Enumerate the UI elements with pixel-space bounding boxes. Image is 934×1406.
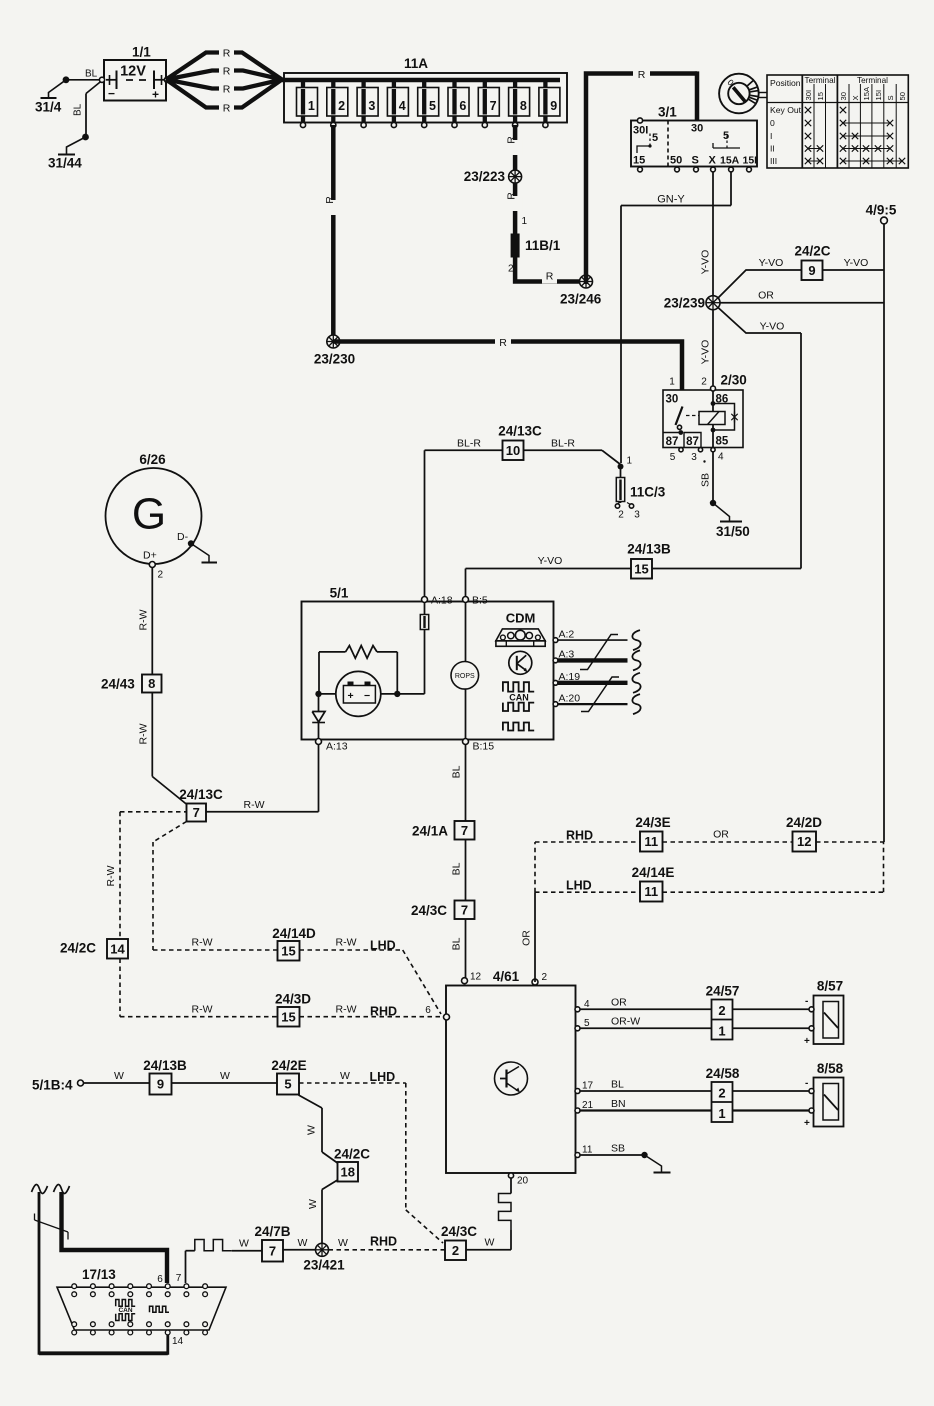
svg-text:15A: 15A <box>862 86 871 100</box>
svg-text:B:5: B:5 <box>472 595 488 607</box>
svg-text:3: 3 <box>368 99 375 113</box>
svg-text:I: I <box>770 131 772 141</box>
svg-text:5: 5 <box>670 452 676 463</box>
svg-text:2/30: 2/30 <box>721 373 747 388</box>
svg-text:24/7B: 24/7B <box>254 1224 290 1239</box>
junction 23/239 <box>706 296 720 310</box>
terminal B:15 <box>463 739 469 745</box>
svg-text:CDM: CDM <box>506 611 536 626</box>
svg-text:23/239: 23/239 <box>664 296 705 311</box>
transistor symbol <box>495 1062 528 1095</box>
junction 23/246 <box>580 275 593 288</box>
svg-text:0: 0 <box>770 118 775 128</box>
outputs A:2 A:3 A:19 A:20 <box>553 638 558 643</box>
relay 87 terminals <box>663 432 681 434</box>
svg-text:R: R <box>223 66 231 78</box>
fuse in 5/1 <box>424 603 426 615</box>
svg-text:2: 2 <box>718 1003 725 1018</box>
svg-text:−: − <box>364 690 370 702</box>
svg-text:4: 4 <box>584 999 590 1010</box>
svg-text:BL-R: BL-R <box>457 438 481 450</box>
svg-text:2: 2 <box>718 1086 725 1101</box>
svg-text:W: W <box>340 1070 350 1082</box>
svg-text:50: 50 <box>898 92 907 100</box>
svg-text:15: 15 <box>634 561 648 576</box>
svg-text:4/9:5: 4/9:5 <box>866 203 897 218</box>
svg-text:Key Out: Key Out <box>770 105 802 115</box>
svg-text:15: 15 <box>816 92 825 100</box>
svg-text:20: 20 <box>517 1176 529 1187</box>
svg-text:11: 11 <box>582 1145 593 1156</box>
wire BL from B:15 <box>465 745 467 822</box>
pin 5 wire OR-W <box>575 1026 580 1031</box>
svg-text:7: 7 <box>461 902 468 917</box>
svg-text:31/50: 31/50 <box>716 524 750 539</box>
pin 21 wire BN <box>575 1108 580 1113</box>
wire BL to 31/44 <box>86 81 102 94</box>
wire bundle R x4 battery to fusebox <box>166 53 282 80</box>
svg-text:1: 1 <box>669 377 675 388</box>
svg-text:R-W: R-W <box>192 1004 213 1016</box>
svg-text:5: 5 <box>584 1018 590 1029</box>
svg-text:W: W <box>114 1070 124 1082</box>
svg-text:24/14D: 24/14D <box>272 926 316 941</box>
svg-text:10: 10 <box>506 443 520 458</box>
dashed W LHD to 24/3C <box>299 1082 406 1084</box>
svg-text:Y-VO: Y-VO <box>700 250 712 275</box>
svg-text:5: 5 <box>284 1077 291 1092</box>
svg-text:15: 15 <box>281 943 295 958</box>
svg-text:24/43: 24/43 <box>101 677 135 692</box>
svg-text:W: W <box>298 1237 308 1249</box>
svg-text:OR: OR <box>521 930 533 946</box>
svg-text:5: 5 <box>429 99 436 113</box>
svg-text:24/3D: 24/3D <box>275 992 311 1007</box>
svg-text:OR: OR <box>758 290 774 302</box>
svg-text:LHD: LHD <box>370 939 396 953</box>
svg-text:Terminal: Terminal <box>857 76 888 85</box>
svg-text:7: 7 <box>193 805 200 820</box>
svg-text:R-W: R-W <box>336 1004 357 1016</box>
fuse 11C/3 <box>618 464 624 470</box>
svg-text:-: - <box>805 996 808 1007</box>
dashed wire R-W RHD row <box>120 1016 278 1018</box>
fuse 4 <box>392 80 396 122</box>
svg-text:A:20: A:20 <box>559 693 581 705</box>
wire OR from pin 2 up <box>534 892 536 982</box>
svg-text:3/1: 3/1 <box>658 105 677 120</box>
fuse 1 <box>301 80 305 122</box>
terminal pin 6 <box>444 1014 450 1020</box>
svg-text:24/57: 24/57 <box>706 984 740 999</box>
svg-text:17/13: 17/13 <box>82 1267 116 1282</box>
diode in 5/1 <box>318 694 320 712</box>
pin 4 wire OR <box>575 1007 580 1012</box>
svg-text:R: R <box>223 48 231 60</box>
wire SB to ground 31/50 <box>712 452 714 503</box>
svg-text:8/57: 8/57 <box>817 979 843 994</box>
svg-text:OR: OR <box>713 829 729 841</box>
pin 17 wire BL <box>575 1089 580 1094</box>
svg-text:11B/1: 11B/1 <box>525 238 561 253</box>
clip mark <box>35 1220 69 1232</box>
svg-text:R-W: R-W <box>244 799 265 811</box>
svg-text:4: 4 <box>399 99 406 113</box>
svg-text:D-: D- <box>177 531 189 543</box>
dashed LHD row with 24/14E <box>535 891 640 893</box>
svg-text:5: 5 <box>723 130 729 142</box>
svg-text:R-W: R-W <box>336 937 357 949</box>
svg-text:24/3C: 24/3C <box>441 1224 477 1239</box>
svg-text:3: 3 <box>634 510 640 521</box>
svg-text:S: S <box>692 155 699 167</box>
svg-text:D+: D+ <box>143 550 157 562</box>
fuse 3 <box>361 80 365 122</box>
svg-text:24/13C: 24/13C <box>498 424 542 439</box>
svg-text:BL: BL <box>451 937 463 950</box>
relay coil <box>711 386 716 391</box>
svg-text:6/26: 6/26 <box>139 452 166 467</box>
svg-text:R-W: R-W <box>192 937 213 949</box>
wire R to relay 2/30 <box>333 342 682 411</box>
fuse 5 <box>422 80 426 122</box>
svg-text:+: + <box>348 690 354 702</box>
svg-text:24/13B: 24/13B <box>627 542 671 557</box>
terminal A:13 <box>316 739 322 745</box>
svg-text:12: 12 <box>797 834 811 849</box>
thick wire to pin 6 <box>32 1184 48 1193</box>
svg-text:24/2D: 24/2D <box>786 815 822 830</box>
svg-text:12: 12 <box>470 972 482 983</box>
svg-text:24/13B: 24/13B <box>143 1058 187 1073</box>
svg-text:−: − <box>108 87 115 101</box>
svg-text:A:13: A:13 <box>326 741 348 753</box>
svg-text:LHD: LHD <box>370 1070 396 1084</box>
svg-text:87: 87 <box>686 436 699 448</box>
key symbol <box>719 74 759 114</box>
svg-text:+: + <box>804 1118 810 1129</box>
svg-text:5/1: 5/1 <box>330 586 349 601</box>
instrument cluster icon <box>496 629 545 641</box>
svg-text:24/2E: 24/2E <box>271 1058 306 1073</box>
svg-text:7: 7 <box>461 823 468 838</box>
wire Y-VO to relay <box>712 310 714 387</box>
svg-text:Y-VO: Y-VO <box>759 257 784 269</box>
svg-text:R: R <box>506 136 518 144</box>
svg-text:W: W <box>307 1199 319 1209</box>
svg-text:Y-VO: Y-VO <box>760 321 785 333</box>
svg-text:1: 1 <box>718 1024 725 1039</box>
svg-text:2: 2 <box>701 377 707 388</box>
svg-text:21: 21 <box>582 1100 594 1111</box>
svg-text:24/3C: 24/3C <box>411 903 447 918</box>
svg-text:24/3E: 24/3E <box>635 815 670 830</box>
svg-text:8: 8 <box>520 99 527 113</box>
svg-text:8/58: 8/58 <box>817 1061 844 1076</box>
svg-text:24/58: 24/58 <box>706 1066 740 1081</box>
svg-text:R: R <box>324 196 336 204</box>
svg-text:30: 30 <box>666 394 679 406</box>
svg-text:15I: 15I <box>743 155 758 167</box>
svg-text:R-W: R-W <box>105 865 117 886</box>
dashed W RHD to 24/3C <box>329 1249 446 1251</box>
resistor in 5/1 <box>319 651 346 653</box>
svg-text:BN: BN <box>611 1098 626 1110</box>
svg-text:30I: 30I <box>633 125 648 137</box>
connector pins bottom row <box>72 1322 77 1327</box>
svg-text:15: 15 <box>633 155 645 167</box>
svg-text:6: 6 <box>459 99 466 113</box>
wire Y-VO to 24/2C <box>718 270 802 298</box>
terminal pin 12 <box>462 978 468 984</box>
svg-text:85: 85 <box>716 436 729 448</box>
junction 23/230 <box>327 335 340 348</box>
fuse 6 <box>452 80 456 122</box>
fuse 7 <box>483 80 487 122</box>
dashed wire R-W to 24/2C <box>120 811 187 813</box>
junction 23/421 <box>316 1243 329 1256</box>
svg-text:2: 2 <box>452 1243 459 1258</box>
svg-text:24/2C: 24/2C <box>334 1147 370 1162</box>
svg-text:2: 2 <box>338 99 345 113</box>
pin 20 square wave wire W <box>508 1173 513 1178</box>
svg-text:SB: SB <box>700 473 712 487</box>
svg-text:W: W <box>338 1237 348 1249</box>
svg-text:50: 50 <box>670 155 682 167</box>
svg-text:+: + <box>804 1036 810 1047</box>
svg-text:X: X <box>851 95 860 100</box>
svg-text:BL: BL <box>451 862 463 875</box>
wire R-W to A:13 <box>206 811 319 813</box>
svg-text:15A: 15A <box>720 155 740 167</box>
terminal 4/9:5 <box>883 224 885 270</box>
wire R to 23/246 <box>542 271 557 284</box>
svg-text:B:15: B:15 <box>473 741 495 753</box>
svg-text:15I: 15I <box>874 90 883 101</box>
svg-text:9: 9 <box>808 263 815 278</box>
svg-text:87: 87 <box>666 436 679 448</box>
svg-text:BL-R: BL-R <box>551 438 575 450</box>
svg-text:31/4: 31/4 <box>35 100 62 115</box>
svg-text:+: + <box>152 88 159 102</box>
svg-text:23/421: 23/421 <box>303 1258 345 1273</box>
svg-text:6: 6 <box>157 1274 163 1285</box>
svg-text:1: 1 <box>522 216 528 227</box>
terminal A:18 <box>422 597 428 603</box>
wire R-W from D+ <box>151 568 153 675</box>
svg-text:14: 14 <box>172 1336 184 1347</box>
svg-text:SB: SB <box>611 1143 625 1155</box>
svg-text:2: 2 <box>618 510 624 521</box>
ignition position table <box>767 75 908 168</box>
svg-text:RHD: RHD <box>370 1235 397 1249</box>
svg-text:23/230: 23/230 <box>314 352 355 367</box>
svg-text:S: S <box>886 95 895 100</box>
svg-text:R: R <box>638 69 646 81</box>
wire W to 24/7B <box>283 1249 316 1251</box>
wire Y-VO to 24/13B <box>718 308 801 334</box>
svg-text:A:18: A:18 <box>431 595 453 607</box>
wire OR right vertical <box>720 302 884 304</box>
junction 23/223 <box>509 170 522 183</box>
svg-text:9: 9 <box>550 99 557 113</box>
terminal pin 2 <box>532 979 538 985</box>
svg-text:23/246: 23/246 <box>560 292 602 307</box>
connector pins top row <box>72 1284 77 1289</box>
bundle slashes <box>580 635 618 670</box>
svg-text:1: 1 <box>627 456 633 467</box>
wire R fuse 2 down <box>331 125 336 342</box>
svg-text:30: 30 <box>691 123 703 135</box>
svg-text:ROPS: ROPS <box>455 673 475 680</box>
svg-text:R: R <box>506 192 518 200</box>
svg-text:Position: Position <box>770 78 801 88</box>
table marks <box>805 107 811 113</box>
svg-text:2: 2 <box>542 972 548 983</box>
svg-text:GN-Y: GN-Y <box>657 194 685 206</box>
svg-text:R-W: R-W <box>138 609 150 630</box>
svg-text:24/13C: 24/13C <box>179 787 223 802</box>
wire to pin 14 <box>39 1192 168 1353</box>
fuse 8 <box>513 80 517 122</box>
svg-text:R-W: R-W <box>138 723 150 744</box>
CAN square waves <box>503 682 534 691</box>
svg-text:BL: BL <box>85 69 98 80</box>
wire BL battery negative <box>66 79 102 81</box>
svg-text:RHD: RHD <box>370 1005 397 1019</box>
svg-text:CAN: CAN <box>118 1307 132 1314</box>
svg-text:12V: 12V <box>120 64 146 80</box>
svg-text:R: R <box>499 337 507 349</box>
dashed RHD row with 24/3E and 24/2D <box>535 841 640 843</box>
svg-text:-: - <box>805 1078 808 1089</box>
svg-text:30: 30 <box>839 92 848 100</box>
fuse 2 <box>331 80 335 122</box>
pin 11 wire SB to ground <box>575 1153 580 1158</box>
svg-text:Y-VO: Y-VO <box>538 555 563 567</box>
svg-text:9: 9 <box>157 1077 164 1092</box>
wire R fuse 8 down <box>513 125 518 234</box>
svg-text:A:2: A:2 <box>559 629 575 641</box>
svg-text:3: 3 <box>691 452 697 463</box>
svg-text:14: 14 <box>110 941 125 956</box>
wire R-W diagonal to 24/13C <box>152 777 187 806</box>
fuse 9 <box>543 80 547 122</box>
svg-text:8: 8 <box>148 676 155 691</box>
svg-text:2: 2 <box>158 570 164 581</box>
svg-text:1/1: 1/1 <box>132 45 151 60</box>
detent symbol left <box>637 146 650 153</box>
svg-text:W: W <box>239 1238 249 1250</box>
svg-text:30I: 30I <box>804 90 813 101</box>
ROPS circle <box>465 603 467 740</box>
svg-text:R: R <box>546 271 554 283</box>
svg-text:31/44: 31/44 <box>48 156 82 171</box>
svg-text:BL: BL <box>73 103 84 116</box>
svg-text:4: 4 <box>718 452 724 463</box>
ground 31/44 <box>67 137 86 154</box>
svg-text:OR-W: OR-W <box>611 1016 640 1028</box>
svg-text:Y-VO: Y-VO <box>700 340 712 365</box>
svg-text:W: W <box>485 1237 495 1249</box>
svg-text:18: 18 <box>341 1164 355 1179</box>
svg-text:II: II <box>770 144 775 154</box>
svg-text:X: X <box>709 155 717 167</box>
wire Y-VO from terminal X <box>712 172 714 296</box>
svg-text:Terminal: Terminal <box>805 76 836 85</box>
wire break squiggles <box>632 630 640 650</box>
svg-text:BL: BL <box>611 1079 624 1091</box>
terminal B:5 <box>463 597 469 603</box>
svg-text:7: 7 <box>490 99 497 113</box>
svg-text:23/223: 23/223 <box>464 169 506 184</box>
svg-text:LHD: LHD <box>566 879 592 893</box>
svg-text:24/14E: 24/14E <box>632 865 675 880</box>
svg-text:7: 7 <box>269 1243 276 1258</box>
svg-text:11: 11 <box>644 884 658 899</box>
detent symbol right <box>713 147 740 149</box>
svg-text:24/2C: 24/2C <box>794 244 830 259</box>
svg-text:11: 11 <box>644 834 658 849</box>
svg-text:24/2C: 24/2C <box>60 941 96 956</box>
svg-text:1: 1 <box>718 1106 725 1121</box>
svg-text:5: 5 <box>652 132 658 144</box>
relay contact <box>676 407 683 426</box>
CAN symbols in 17/13 <box>116 1300 136 1307</box>
svg-text:1: 1 <box>308 99 315 113</box>
wire GN-Y from terminal 15A <box>730 172 732 206</box>
K symbol circle <box>509 651 532 674</box>
svg-text:11A: 11A <box>404 56 428 71</box>
backup battery in 5/1 <box>336 671 381 716</box>
svg-text:4/61: 4/61 <box>493 969 520 984</box>
svg-text:OR: OR <box>611 997 627 1009</box>
wire W square wave to pin 7 <box>232 1250 262 1252</box>
svg-text:III: III <box>770 156 777 166</box>
svg-text:CAN: CAN <box>509 692 529 702</box>
svg-text:11C/3: 11C/3 <box>630 485 666 500</box>
svg-text:RHD: RHD <box>566 829 593 843</box>
ground 31/4 <box>49 80 67 98</box>
svg-text:W: W <box>220 1070 230 1082</box>
svg-text:G: G <box>132 490 166 539</box>
svg-text:7: 7 <box>176 1273 182 1284</box>
svg-text:15: 15 <box>281 1009 295 1024</box>
dashed wire R-W LHD row <box>153 822 187 843</box>
svg-text:6: 6 <box>425 1005 431 1016</box>
svg-text:Y-VO: Y-VO <box>844 257 869 269</box>
svg-text:R: R <box>223 103 231 115</box>
svg-text:24/1A: 24/1A <box>412 824 448 839</box>
svg-text:R: R <box>223 84 231 96</box>
wire R up and over to ignition switch <box>586 74 697 285</box>
wire W from 24/2E down <box>299 1095 323 1108</box>
svg-text:17: 17 <box>582 1081 594 1092</box>
svg-text:5/1B:4: 5/1B:4 <box>32 1078 73 1093</box>
svg-text:BL: BL <box>451 765 463 778</box>
svg-text:W: W <box>306 1125 318 1135</box>
wire battery row <box>319 693 336 695</box>
